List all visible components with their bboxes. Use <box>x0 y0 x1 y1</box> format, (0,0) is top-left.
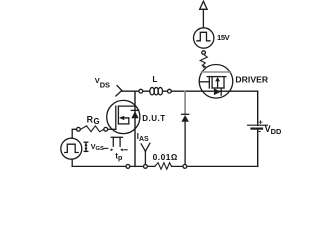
wire to VGS generator <box>72 129 76 138</box>
node terminal below 15V source <box>202 51 206 55</box>
battery VDD <box>248 124 268 126</box>
svg-text:-: - <box>258 127 261 136</box>
transistor DRIVER <box>199 65 233 99</box>
inductor L <box>150 87 155 95</box>
wire <box>202 9 204 28</box>
svg-text:L: L <box>152 74 157 84</box>
node gate terminal <box>104 127 108 131</box>
svg-text:0.01Ω: 0.01Ω <box>153 152 178 162</box>
svg-text:15V: 15V <box>217 33 231 42</box>
resistor 0.01 ohm <box>155 163 172 170</box>
svg-text:D.U.T: D.U.T <box>142 114 165 123</box>
node VDS probe <box>117 86 122 91</box>
svg-text:DRIVER: DRIVER <box>235 75 269 85</box>
resistor RG <box>77 127 81 131</box>
wire DUT drain-source vertical <box>134 91 136 166</box>
VGS measure indicator <box>84 141 88 143</box>
wire (drain node to diode cathode) <box>184 92 186 115</box>
wire top rail <box>122 90 150 92</box>
wire (diode anode to bottom rail) <box>184 122 186 167</box>
supply arrow (top) <box>200 1 208 9</box>
node junction <box>168 89 172 93</box>
node junction (IAS sense) <box>144 165 148 169</box>
wire gate-drive squiggle <box>200 54 207 65</box>
transistor D.U.T <box>107 100 140 133</box>
svg-text:+: + <box>258 118 263 127</box>
pulse source 15V <box>194 28 214 48</box>
tp pulse width symbol <box>111 136 122 138</box>
diode D1 <box>182 113 189 115</box>
node junction (shunt to diode) <box>183 165 187 169</box>
wire bottom rail <box>72 165 155 167</box>
IAS probe arrow <box>141 144 145 151</box>
node junction <box>139 89 143 93</box>
svg-text:RG: RG <box>87 115 100 127</box>
wire (top rail to battery +) <box>257 91 259 125</box>
node junction (source return) <box>126 165 130 169</box>
wire (battery - to bottom rail) <box>257 129 259 167</box>
wire <box>71 159 73 166</box>
pulse source VGS generator <box>61 138 82 159</box>
